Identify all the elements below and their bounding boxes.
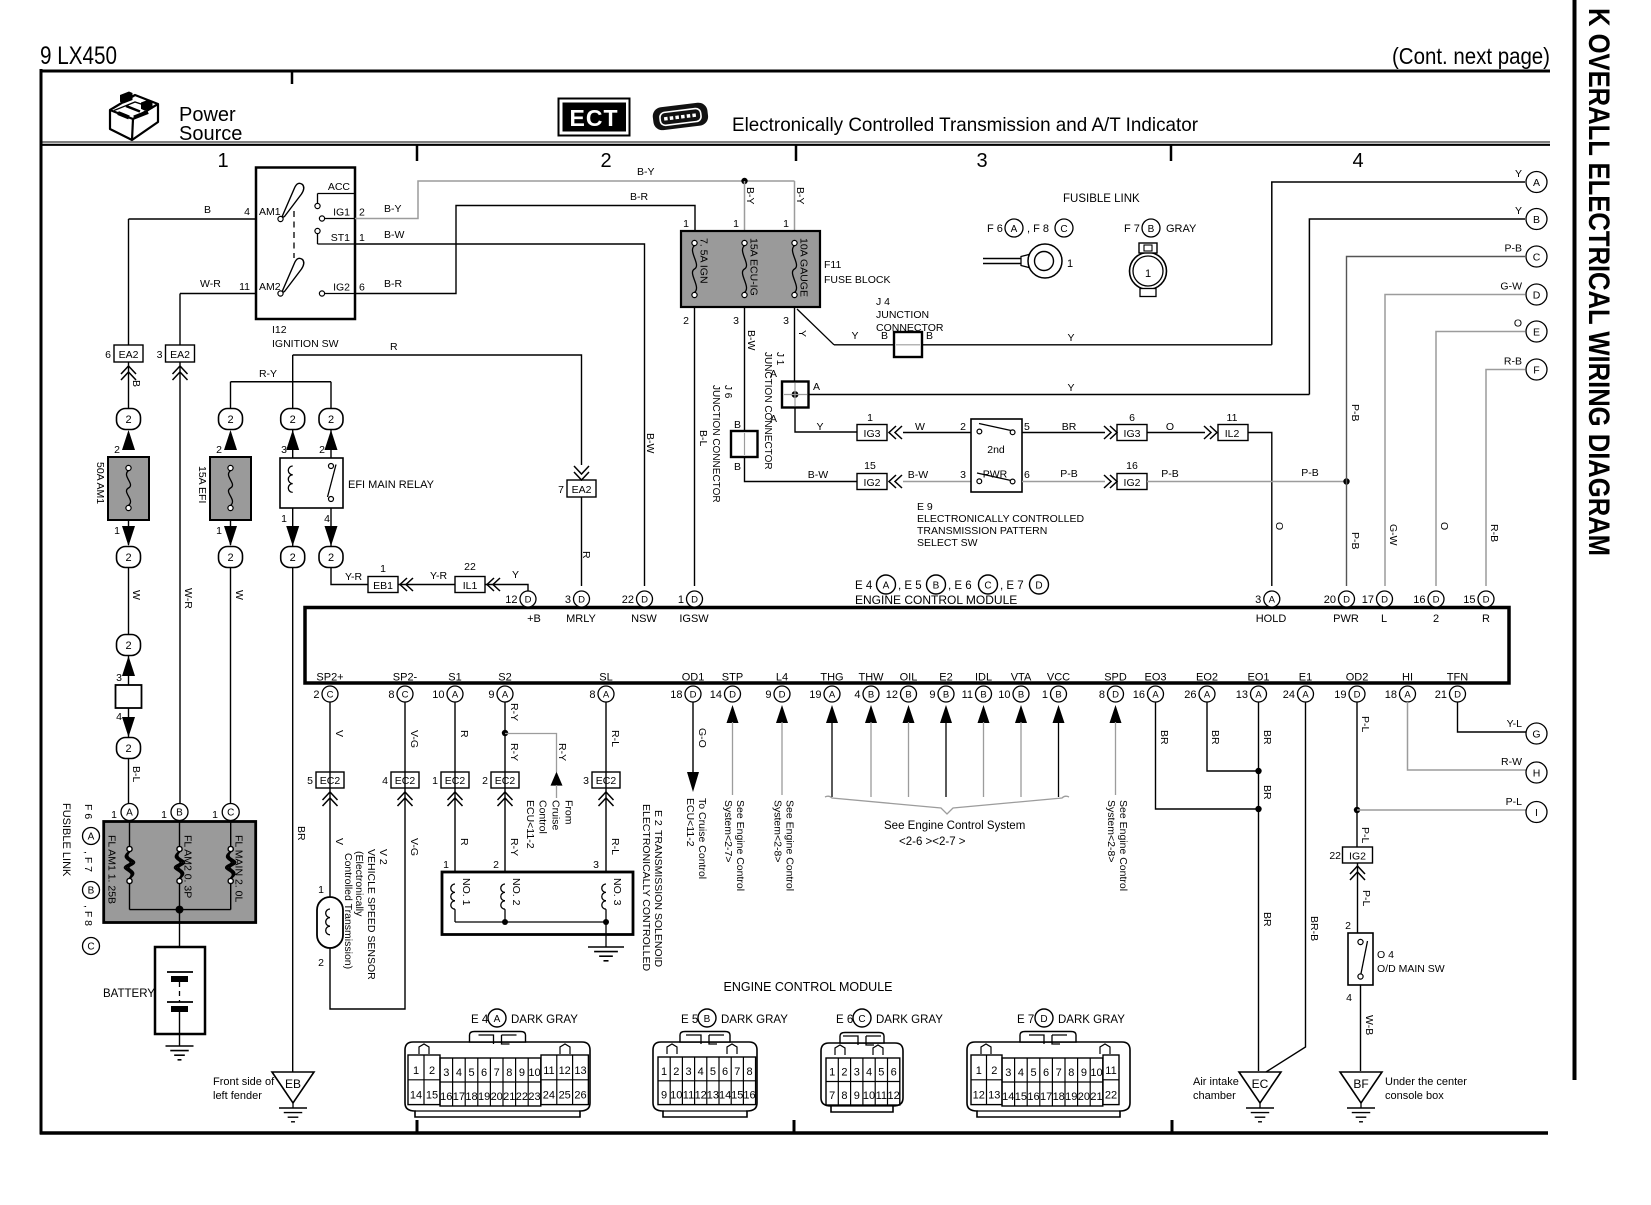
svg-text:1: 1 (212, 809, 218, 821)
svg-text:D: D (1533, 290, 1541, 302)
svg-text:Y: Y (851, 330, 858, 342)
svg-text:9: 9 (519, 1067, 525, 1079)
svg-text:C: C (402, 689, 409, 700)
svg-text:8: 8 (1068, 1067, 1074, 1079)
svg-text:B-W: B-W (384, 229, 405, 241)
svg-text:16: 16 (1027, 1091, 1039, 1103)
svg-text:2: 2 (841, 1067, 847, 1079)
svg-text:D: D (1454, 689, 1461, 700)
svg-text:18: 18 (1385, 689, 1397, 701)
svg-text:1: 1 (733, 218, 739, 230)
svg-text:A: A (1302, 689, 1309, 700)
svg-text:9: 9 (488, 689, 494, 701)
svg-text:B: B (176, 808, 183, 819)
svg-text:22: 22 (516, 1091, 528, 1103)
svg-text:Control: Control (537, 800, 549, 834)
svg-text:J 6: J 6 (722, 385, 733, 399)
svg-text:4: 4 (1352, 150, 1363, 172)
svg-text:E2: E2 (939, 672, 952, 684)
svg-text:20: 20 (491, 1091, 503, 1103)
svg-text:BR-B: BR-B (1308, 916, 1320, 941)
svg-text:L: L (1381, 613, 1387, 625)
svg-text:SP2-: SP2- (393, 672, 418, 684)
svg-text:R-W: R-W (1501, 756, 1522, 768)
svg-text:P-L: P-L (1359, 827, 1371, 844)
svg-text:14: 14 (719, 1090, 731, 1102)
svg-text:B: B (905, 689, 911, 700)
svg-text:JUNCTION CONNECTOR: JUNCTION CONNECTOR (710, 385, 721, 503)
svg-text:(Cont. next page): (Cont. next page) (1392, 43, 1550, 69)
svg-text:4: 4 (698, 1066, 704, 1078)
svg-text:6: 6 (722, 1066, 728, 1078)
svg-text:W: W (130, 590, 142, 600)
svg-text:15: 15 (1463, 594, 1475, 606)
svg-text:3: 3 (565, 594, 571, 606)
svg-text:OD2: OD2 (1346, 672, 1369, 684)
svg-text:O 4: O 4 (1377, 949, 1394, 961)
svg-text:C: C (87, 942, 94, 953)
svg-text:1: 1 (161, 809, 167, 821)
svg-text:18: 18 (1053, 1091, 1065, 1103)
svg-text:R-B: R-B (1488, 524, 1500, 542)
svg-text:NO. 2: NO. 2 (510, 878, 522, 906)
svg-text:A: A (813, 381, 820, 393)
svg-text:2: 2 (1433, 613, 1439, 625)
svg-text:3: 3 (685, 1066, 691, 1078)
svg-text:IGNITION SW: IGNITION SW (272, 338, 339, 350)
svg-text:3: 3 (157, 349, 163, 361)
svg-text:B-Y: B-Y (794, 187, 806, 205)
svg-text:1: 1 (661, 1066, 667, 1078)
svg-text:C: C (1060, 224, 1067, 235)
svg-text:2nd: 2nd (987, 444, 1005, 456)
svg-text:HI: HI (1402, 672, 1413, 684)
svg-text:D: D (1343, 594, 1350, 605)
svg-text:G-O: G-O (696, 728, 708, 748)
svg-text:System<2-8>: System<2-8> (772, 800, 784, 862)
svg-text:B: B (1148, 224, 1155, 235)
svg-text:SP2+: SP2+ (316, 672, 343, 684)
svg-text:ENGINE CONTROL MODULE: ENGINE CONTROL MODULE (855, 593, 1017, 607)
svg-text:2: 2 (493, 859, 499, 871)
svg-text:Y: Y (512, 569, 519, 581)
svg-text:A: A (1204, 689, 1211, 700)
svg-text:1: 1 (216, 525, 222, 537)
svg-text:2: 2 (1345, 920, 1351, 932)
svg-text:+B: +B (527, 613, 541, 625)
svg-text:V-G: V-G (408, 730, 420, 748)
svg-text:R: R (458, 730, 470, 738)
svg-text:6: 6 (1043, 1067, 1049, 1079)
svg-text:13: 13 (1236, 689, 1248, 701)
svg-text:A: A (1404, 689, 1411, 700)
svg-text:Y: Y (816, 421, 823, 433)
svg-text:Controlled Transmission): Controlled Transmission) (342, 853, 354, 969)
svg-text:OD1: OD1 (682, 672, 705, 684)
svg-text:Air intake: Air intake (1193, 1076, 1239, 1088)
svg-text:Cruise: Cruise (550, 800, 562, 831)
svg-text:Y-R: Y-R (430, 570, 448, 582)
svg-text:1: 1 (318, 884, 324, 896)
svg-text:P-B: P-B (1349, 532, 1361, 550)
svg-text:14: 14 (410, 1090, 422, 1102)
svg-text:P-B: P-B (1301, 467, 1319, 479)
svg-text:3: 3 (960, 469, 966, 481)
svg-text:SL: SL (599, 672, 612, 684)
svg-text:IG1: IG1 (333, 207, 350, 219)
svg-text:E 4: E 4 (855, 580, 873, 592)
svg-text:5: 5 (1030, 1067, 1036, 1079)
svg-text:V 2: V 2 (377, 849, 389, 865)
svg-text:IDL: IDL (975, 672, 992, 684)
svg-text:4: 4 (1018, 1067, 1024, 1079)
svg-text:D: D (729, 689, 736, 700)
svg-text:D: D (779, 689, 786, 700)
svg-text:P-B: P-B (1504, 243, 1522, 255)
svg-text:R-B: R-B (1504, 356, 1522, 368)
svg-text:D: D (1483, 594, 1490, 605)
svg-text:VEHICLE SPEED SENSOR: VEHICLE SPEED SENSOR (365, 849, 377, 980)
svg-text:22: 22 (1105, 1090, 1117, 1102)
svg-text:EC2: EC2 (395, 775, 416, 787)
svg-text:R-L: R-L (609, 838, 621, 855)
svg-text:F 6: F 6 (82, 804, 94, 819)
svg-text:ACC: ACC (328, 181, 351, 193)
svg-text:EO2: EO2 (1196, 672, 1218, 684)
svg-text:12: 12 (695, 1090, 707, 1102)
svg-text:B: B (933, 581, 940, 592)
svg-text:NO. 1: NO. 1 (460, 878, 472, 906)
svg-text:5: 5 (1024, 421, 1030, 433)
svg-text:SPD: SPD (1104, 672, 1127, 684)
svg-text:E 6: E 6 (836, 1014, 853, 1026)
svg-text:TFN: TFN (1447, 672, 1468, 684)
svg-text:10: 10 (528, 1067, 540, 1079)
svg-text:IG2: IG2 (1349, 851, 1366, 863)
svg-text:V: V (333, 838, 345, 845)
svg-text:R-Y: R-Y (259, 368, 277, 380)
svg-text:26: 26 (574, 1090, 586, 1102)
svg-text:EB: EB (285, 1077, 301, 1091)
svg-text:4: 4 (456, 1067, 462, 1079)
svg-text:B: B (868, 689, 874, 700)
svg-text:W-R: W-R (200, 278, 221, 290)
svg-text:16: 16 (1413, 594, 1425, 606)
svg-text:2: 2 (313, 689, 319, 701)
svg-text:BR: BR (1261, 912, 1273, 927)
svg-text:10: 10 (998, 689, 1010, 701)
svg-text:EO3: EO3 (1144, 672, 1166, 684)
svg-text:F 6: F 6 (987, 223, 1003, 235)
svg-text:4: 4 (116, 711, 122, 723)
svg-text:FL AM2 0. 3P: FL AM2 0. 3P (182, 835, 194, 898)
svg-text:21: 21 (503, 1091, 515, 1103)
svg-text:17: 17 (1362, 594, 1374, 606)
svg-text:Y: Y (1067, 332, 1074, 344)
svg-text:A: A (126, 808, 133, 819)
svg-text:19: 19 (809, 689, 821, 701)
svg-text:To Cruise Control: To Cruise Control (696, 798, 708, 879)
svg-text:R-Y: R-Y (508, 703, 520, 721)
svg-text:3: 3 (783, 315, 789, 327)
svg-text:2: 2 (125, 414, 131, 426)
svg-text:FUSE BLOCK: FUSE BLOCK (824, 274, 891, 286)
svg-text:G-W: G-W (1387, 524, 1399, 546)
svg-text:8: 8 (746, 1066, 752, 1078)
svg-text:EA2: EA2 (170, 349, 190, 361)
svg-text:21: 21 (1090, 1091, 1102, 1103)
svg-text:5: 5 (307, 775, 313, 787)
svg-text:B-W: B-W (644, 433, 656, 454)
svg-text:R: R (1482, 613, 1490, 625)
svg-text:4: 4 (866, 1067, 872, 1079)
svg-text:W: W (915, 421, 925, 433)
svg-text:4: 4 (382, 775, 388, 787)
svg-text:11: 11 (543, 1065, 554, 1077)
svg-text:9: 9 (1081, 1067, 1087, 1079)
svg-text:D: D (1040, 1014, 1047, 1025)
svg-text:B: B (1533, 214, 1540, 226)
svg-text:From: From (563, 800, 575, 825)
svg-text:4: 4 (854, 689, 860, 701)
svg-text:7: 7 (494, 1067, 500, 1079)
svg-text:BATTERY: BATTERY (103, 988, 155, 1000)
svg-text:B: B (704, 1014, 711, 1025)
svg-text:NSW: NSW (631, 613, 657, 625)
svg-text:D: D (1381, 594, 1388, 605)
svg-text:EO1: EO1 (1247, 672, 1269, 684)
svg-text:ECT: ECT (570, 105, 619, 131)
svg-text:Y: Y (796, 330, 808, 337)
svg-text:A: A (1152, 689, 1159, 700)
svg-text:B-R: B-R (630, 191, 649, 203)
svg-text:FL AM1 1. 25B: FL AM1 1. 25B (106, 835, 118, 904)
svg-text:See Engine Control: See Engine Control (1117, 800, 1129, 891)
svg-text:CONNECTOR: CONNECTOR (876, 322, 944, 334)
svg-text:B-W: B-W (745, 330, 757, 351)
svg-text:BR: BR (1261, 730, 1273, 745)
svg-text:6: 6 (1129, 412, 1135, 424)
svg-text:C: C (1533, 252, 1541, 264)
svg-text:H: H (1533, 768, 1541, 780)
svg-text:18: 18 (670, 689, 682, 701)
svg-text:10: 10 (670, 1090, 682, 1102)
svg-text:3: 3 (443, 1067, 449, 1079)
svg-text:1: 1 (432, 775, 438, 787)
svg-text:JUNCTION CONNECTOR: JUNCTION CONNECTOR (762, 352, 773, 470)
svg-text:R: R (390, 341, 398, 353)
svg-text:8: 8 (506, 1067, 512, 1079)
svg-text:26: 26 (1184, 689, 1196, 701)
svg-text:E 7: E 7 (1017, 1014, 1034, 1026)
svg-text:C: C (327, 689, 334, 700)
svg-text:2: 2 (290, 414, 296, 426)
svg-text:R: R (580, 551, 592, 559)
svg-text:EC: EC (1252, 1077, 1269, 1091)
svg-text:IG2: IG2 (864, 477, 881, 489)
svg-text:5: 5 (468, 1067, 474, 1079)
svg-text:D: D (1433, 594, 1440, 605)
svg-text:2: 2 (328, 414, 334, 426)
svg-text:P-L: P-L (1360, 890, 1372, 907)
svg-text:15: 15 (864, 460, 876, 472)
svg-text:D: D (578, 594, 585, 605)
svg-text:7: 7 (1056, 1067, 1062, 1079)
svg-text:6: 6 (891, 1067, 897, 1079)
svg-text:K OVERALL ELECTRICAL WIRING: K OVERALL ELECTRICAL WIRING DIAGRAM (1582, 8, 1615, 556)
svg-text:1: 1 (829, 1067, 835, 1079)
svg-text:10A GAUGE: 10A GAUGE (798, 238, 810, 297)
svg-text:16: 16 (1126, 460, 1138, 472)
svg-text:6: 6 (481, 1067, 487, 1079)
svg-text:IG2: IG2 (1124, 477, 1141, 489)
svg-text:BR: BR (1062, 421, 1077, 433)
svg-text:P-B: P-B (1060, 468, 1078, 480)
svg-text:BR: BR (1158, 730, 1170, 745)
svg-text:1: 1 (1145, 268, 1151, 280)
svg-text:C: C (858, 1014, 865, 1025)
svg-text:D: D (691, 594, 698, 605)
svg-text:1: 1 (111, 809, 117, 821)
svg-text:3: 3 (116, 672, 122, 684)
svg-text:B-W: B-W (908, 469, 929, 481)
svg-text:13: 13 (988, 1090, 1000, 1102)
svg-text:2: 2 (991, 1065, 997, 1077)
svg-text:A: A (1269, 594, 1276, 605)
svg-text:2: 2 (328, 552, 334, 564)
svg-text:I12: I12 (272, 324, 287, 336)
svg-text:F11: F11 (824, 259, 841, 271)
svg-text:2: 2 (359, 207, 365, 219)
svg-text:V: V (333, 730, 345, 737)
svg-text:O: O (1514, 318, 1522, 330)
svg-text:G-W: G-W (1500, 281, 1522, 293)
svg-text:I: I (1535, 807, 1538, 819)
svg-text:24: 24 (1283, 689, 1295, 701)
svg-text:DARK GRAY: DARK GRAY (876, 1014, 943, 1026)
svg-text:TRANSMISSION PATTERN: TRANSMISSION PATTERN (917, 525, 1047, 537)
svg-text:B: B (204, 204, 211, 216)
svg-text:16: 16 (440, 1091, 452, 1103)
svg-text:2: 2 (482, 775, 488, 787)
svg-text:B: B (943, 689, 949, 700)
svg-text:3: 3 (733, 315, 739, 327)
svg-text:A: A (452, 689, 459, 700)
svg-text:B-L: B-L (697, 430, 709, 447)
svg-text:D: D (525, 594, 532, 605)
svg-text:B: B (734, 461, 741, 473)
svg-text:2: 2 (114, 444, 120, 456)
svg-text:W-R: W-R (182, 588, 194, 609)
svg-text:19: 19 (1065, 1091, 1077, 1103)
svg-text:NO. 3: NO. 3 (611, 878, 623, 906)
svg-text:15A EFI: 15A EFI (196, 466, 208, 503)
svg-text:8: 8 (841, 1090, 847, 1102)
svg-text:EA2: EA2 (119, 349, 139, 361)
svg-text:<2-6 ><2-7 >: <2-6 ><2-7 > (899, 836, 966, 848)
svg-text:4: 4 (244, 206, 250, 218)
svg-text:IL1: IL1 (463, 580, 478, 592)
svg-text:4: 4 (324, 513, 330, 525)
svg-text:O/D MAIN SW: O/D MAIN SW (1377, 963, 1445, 975)
svg-text:7: 7 (829, 1090, 835, 1102)
svg-text:E: E (1533, 327, 1540, 339)
svg-text:16: 16 (743, 1090, 755, 1102)
svg-text:12: 12 (973, 1090, 985, 1102)
svg-text:D: D (690, 689, 697, 700)
svg-text:Front side of: Front side of (213, 1076, 275, 1088)
svg-text:VTA: VTA (1011, 672, 1032, 684)
svg-text:22: 22 (622, 594, 634, 606)
svg-text:O: O (1166, 421, 1174, 433)
svg-text:MRLY: MRLY (566, 613, 596, 625)
svg-text:F: F (1533, 365, 1539, 377)
svg-text:20: 20 (1078, 1091, 1090, 1103)
svg-text:E 5: E 5 (681, 1014, 698, 1026)
svg-text:2: 2 (683, 315, 689, 327)
svg-text:DARK GRAY: DARK GRAY (511, 1014, 578, 1026)
svg-text:FUSIBLE LINK: FUSIBLE LINK (60, 803, 72, 877)
svg-text:J 1: J 1 (774, 352, 785, 366)
svg-text:15: 15 (731, 1090, 743, 1102)
svg-text:EFI MAIN RELAY: EFI MAIN RELAY (348, 479, 435, 491)
svg-text:EC2: EC2 (445, 775, 466, 787)
svg-text:17: 17 (453, 1091, 465, 1103)
svg-text:2: 2 (319, 444, 325, 456)
svg-text:THG: THG (820, 672, 843, 684)
svg-text:A: A (603, 689, 610, 700)
svg-text:ECU<11-2: ECU<11-2 (524, 800, 536, 849)
svg-text:22: 22 (464, 561, 476, 573)
svg-text:3: 3 (854, 1067, 860, 1079)
svg-text:1: 1 (217, 150, 228, 172)
svg-text:B-L: B-L (130, 766, 142, 783)
svg-text:IG3: IG3 (1124, 428, 1141, 440)
svg-text:G: G (1532, 729, 1540, 741)
svg-text:B: B (88, 886, 95, 897)
svg-text:6: 6 (1024, 469, 1030, 481)
svg-text:S2: S2 (498, 672, 511, 684)
svg-text:P-B: P-B (1349, 404, 1361, 422)
svg-text:STP: STP (722, 672, 743, 684)
svg-text:11: 11 (876, 1090, 887, 1102)
svg-text:15: 15 (1015, 1091, 1027, 1103)
svg-text:chamber: chamber (1193, 1090, 1236, 1102)
svg-text:2: 2 (960, 421, 966, 433)
svg-text:7. 5A IGN: 7. 5A IGN (698, 238, 710, 284)
svg-text:SELECT SW: SELECT SW (917, 537, 978, 549)
svg-text:1: 1 (976, 1065, 982, 1077)
svg-text:left fender: left fender (213, 1090, 262, 1102)
svg-text:13: 13 (574, 1065, 586, 1077)
svg-text:9 LX450: 9 LX450 (40, 42, 117, 70)
svg-text:21: 21 (1435, 689, 1447, 701)
svg-text:25: 25 (559, 1090, 571, 1102)
svg-text:19: 19 (478, 1091, 490, 1103)
svg-text:6: 6 (359, 282, 365, 294)
svg-text:10: 10 (432, 689, 444, 701)
svg-text:14: 14 (710, 689, 722, 701)
svg-text:4: 4 (1346, 992, 1352, 1004)
svg-text:9: 9 (765, 689, 771, 701)
svg-text:console box: console box (1385, 1090, 1444, 1102)
svg-text:14: 14 (1002, 1091, 1014, 1103)
svg-text:1: 1 (443, 859, 449, 871)
svg-text:9: 9 (661, 1090, 667, 1102)
svg-text:22: 22 (1329, 850, 1341, 862)
svg-text:B-Y: B-Y (384, 203, 402, 215)
svg-text:THW: THW (858, 672, 884, 684)
